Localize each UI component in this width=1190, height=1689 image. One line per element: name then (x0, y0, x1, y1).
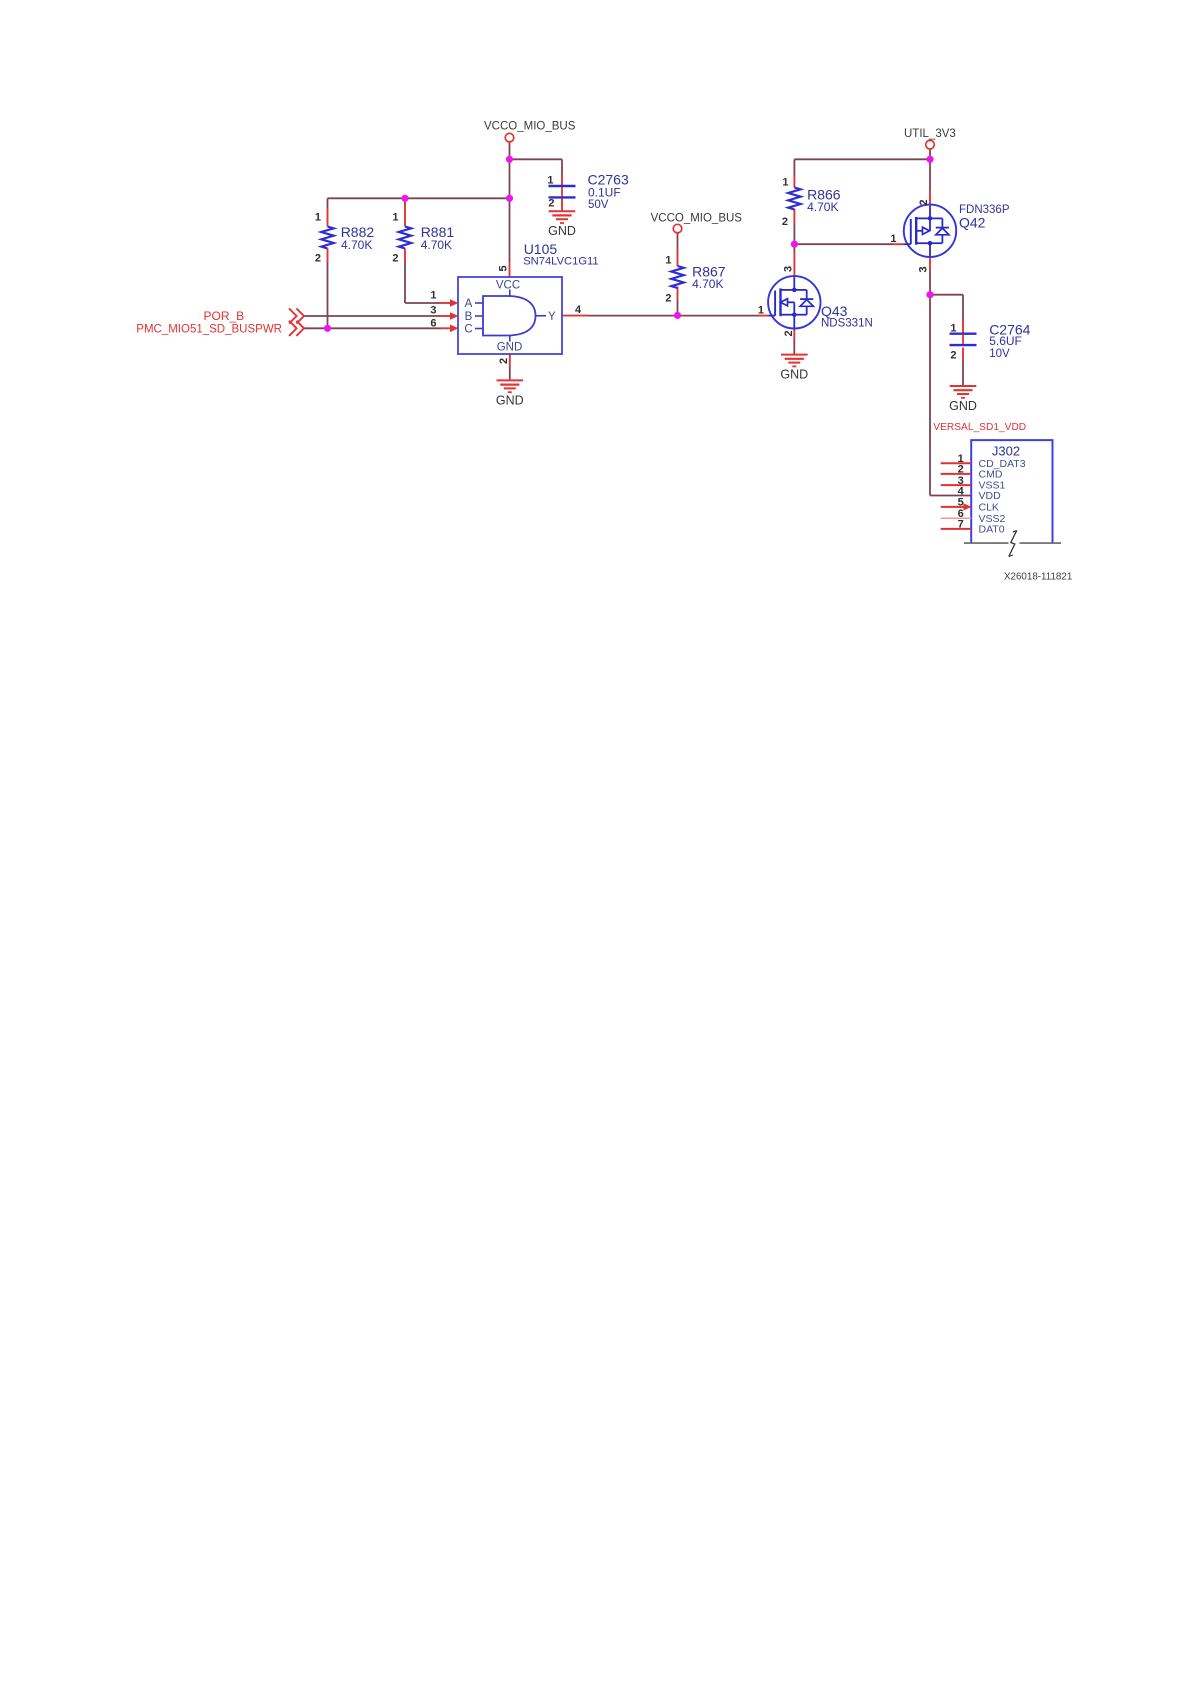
svg-text:VCCO_MIO_BUS: VCCO_MIO_BUS (651, 213, 743, 225)
svg-text:1: 1 (950, 323, 956, 335)
svg-text:1: 1 (392, 212, 398, 224)
svg-text:1: 1 (665, 254, 671, 266)
svg-text:GND: GND (949, 399, 977, 413)
svg-text:SN74LVC1G11: SN74LVC1G11 (523, 256, 598, 268)
svg-text:DAT0: DAT0 (979, 524, 1005, 536)
svg-text:1: 1 (758, 305, 764, 317)
svg-text:UTIL_3V3: UTIL_3V3 (904, 128, 956, 140)
svg-text:Q43: Q43 (821, 303, 848, 319)
svg-text:POR_B: POR_B (204, 309, 245, 323)
svg-text:2: 2 (950, 350, 956, 362)
svg-text:2: 2 (918, 199, 930, 205)
svg-text:3: 3 (918, 266, 930, 272)
svg-text:CMD: CMD (979, 469, 1003, 481)
svg-text:NDS331N: NDS331N (821, 318, 873, 330)
svg-text:5: 5 (498, 265, 510, 271)
svg-text:CLK: CLK (979, 502, 999, 514)
svg-text:4.70K: 4.70K (807, 200, 838, 214)
svg-text:X26018-111821: X26018-111821 (1004, 571, 1072, 582)
svg-text:GND: GND (497, 342, 523, 354)
svg-text:2: 2 (498, 358, 510, 364)
svg-text:B: B (465, 311, 473, 323)
svg-text:2: 2 (782, 216, 788, 228)
svg-text:VCC: VCC (496, 279, 520, 291)
svg-text:VDD: VDD (979, 490, 1002, 502)
svg-text:3: 3 (783, 266, 795, 272)
svg-text:GND: GND (548, 224, 576, 238)
svg-text:J302: J302 (992, 443, 1020, 458)
svg-text:5.6UF: 5.6UF (989, 334, 1022, 348)
svg-text:GND: GND (496, 393, 524, 407)
svg-text:2: 2 (315, 252, 321, 264)
svg-text:PMC_MIO51_SD_BUSPWR: PMC_MIO51_SD_BUSPWR (136, 323, 282, 335)
svg-text:4.70K: 4.70K (341, 238, 372, 252)
svg-text:4: 4 (958, 485, 965, 497)
svg-text:Y: Y (548, 311, 556, 323)
svg-text:2: 2 (783, 330, 795, 336)
svg-text:U105: U105 (524, 241, 558, 257)
svg-text:1: 1 (430, 290, 436, 302)
svg-text:6: 6 (430, 317, 436, 329)
svg-text:2: 2 (548, 198, 554, 210)
svg-text:10V: 10V (989, 348, 1010, 360)
svg-text:4.70K: 4.70K (692, 277, 723, 291)
svg-text:A: A (465, 298, 473, 310)
svg-text:7: 7 (958, 519, 964, 531)
svg-text:4.70K: 4.70K (421, 238, 452, 252)
svg-text:0.1UF: 0.1UF (588, 185, 621, 199)
svg-text:50V: 50V (588, 199, 609, 211)
svg-text:1: 1 (315, 212, 321, 224)
svg-text:VCCO_MIO_BUS: VCCO_MIO_BUS (484, 121, 576, 133)
svg-text:1: 1 (782, 177, 788, 189)
svg-text:1: 1 (890, 233, 896, 245)
svg-text:4: 4 (575, 304, 582, 316)
svg-text:3: 3 (430, 305, 436, 317)
svg-text:GND: GND (780, 368, 808, 382)
svg-text:VERSAL_SD1_VDD: VERSAL_SD1_VDD (933, 422, 1026, 433)
svg-text:2: 2 (665, 293, 671, 305)
svg-text:C: C (464, 324, 472, 336)
svg-text:5: 5 (958, 497, 964, 509)
svg-text:2: 2 (392, 252, 398, 264)
svg-text:1: 1 (547, 175, 553, 187)
svg-text:Q42: Q42 (959, 215, 986, 231)
svg-text:2: 2 (958, 464, 964, 476)
